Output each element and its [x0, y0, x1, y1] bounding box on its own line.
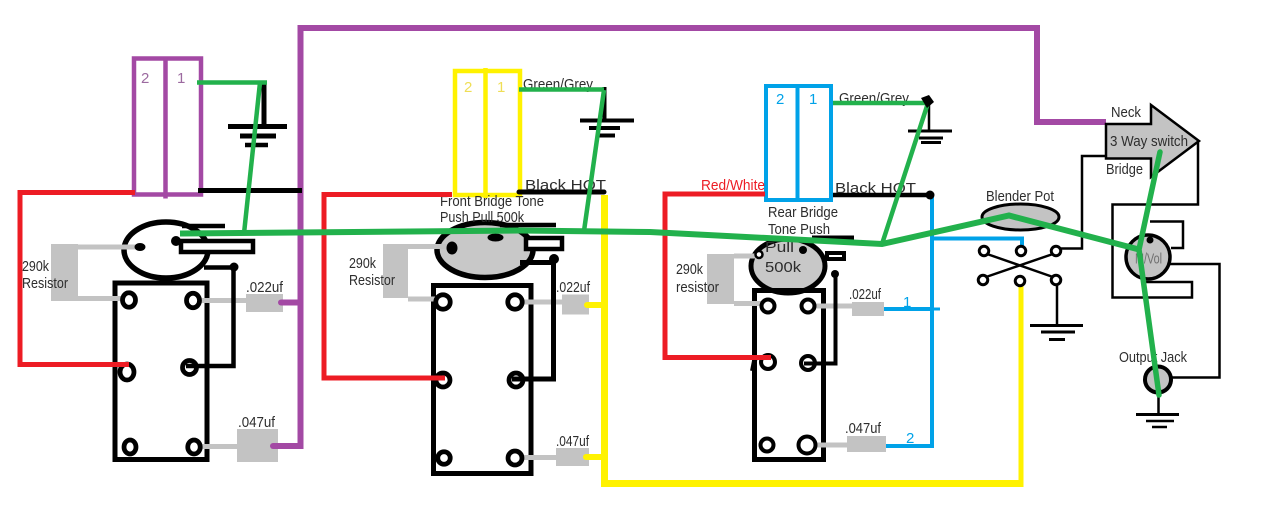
- svg-text:resistor: resistor: [676, 279, 719, 296]
- svg-text:.047uf: .047uf: [845, 420, 882, 437]
- svg-text:Blender Pot: Blender Pot: [986, 188, 1055, 205]
- svg-text:2: 2: [141, 70, 149, 87]
- svg-text:290k: 290k: [676, 261, 703, 278]
- svg-text:2: 2: [776, 91, 784, 108]
- svg-text:Rear Bridge: Rear Bridge: [768, 204, 838, 221]
- svg-text:Black HOT: Black HOT: [525, 177, 606, 194]
- svg-text:1: 1: [903, 294, 911, 311]
- svg-text:.047uf: .047uf: [556, 433, 590, 450]
- svg-text:Push Pull 500k: Push Pull 500k: [440, 209, 524, 226]
- svg-text:.022uf: .022uf: [849, 286, 882, 303]
- svg-text:Front Bridge Tone: Front Bridge Tone: [440, 193, 544, 210]
- svg-text:290k: 290k: [22, 258, 49, 275]
- svg-text:.022uf: .022uf: [556, 279, 591, 296]
- svg-text:Neck: Neck: [1111, 104, 1141, 121]
- svg-text:Resistor: Resistor: [349, 272, 395, 289]
- svg-text:1: 1: [177, 70, 185, 87]
- svg-text:.022uf: .022uf: [246, 279, 284, 296]
- svg-text:290k: 290k: [349, 255, 376, 272]
- svg-text:Bridge: Bridge: [1106, 161, 1143, 178]
- svg-text:Resistor: Resistor: [22, 275, 68, 292]
- svg-text:1: 1: [497, 79, 505, 96]
- svg-text:Red/White: Red/White: [701, 177, 765, 194]
- svg-text:2: 2: [464, 79, 472, 96]
- svg-text:1: 1: [809, 91, 817, 108]
- svg-text:.047uf: .047uf: [238, 414, 276, 431]
- svg-text:500k: 500k: [765, 259, 802, 276]
- svg-text:3 Way switch: 3 Way switch: [1110, 133, 1188, 150]
- svg-text:Tone Push: Tone Push: [768, 221, 830, 238]
- svg-text:2: 2: [906, 430, 914, 447]
